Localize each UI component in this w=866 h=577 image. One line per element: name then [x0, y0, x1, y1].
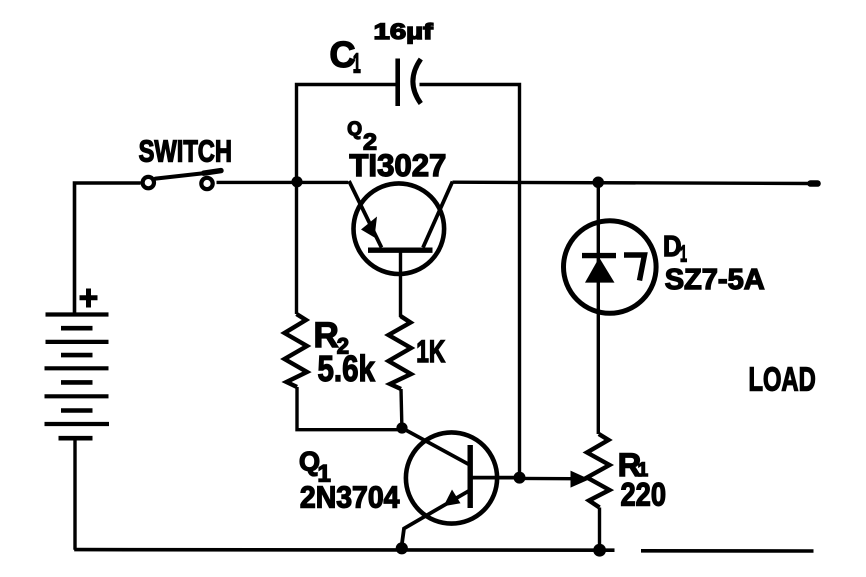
transistor Q1: [402, 428, 520, 547]
R1 wiper arrow: [571, 471, 590, 488]
wire C1 right side down to Q1 collector node: [420, 85, 520, 478]
wire R2 bottom to node C: [297, 387, 402, 430]
svg-text:Q: Q: [347, 119, 362, 140]
node C junction (Q1 base): [396, 422, 407, 433]
top rail right end tip: [811, 180, 818, 187]
node F junction (R1 bottom / bottom rail): [593, 544, 606, 557]
capacitor C1: [398, 59, 421, 107]
svg-text:5.6k: 5.6k: [318, 348, 376, 389]
svg-text:LOAD: LOAD: [749, 361, 816, 398]
Q1 label: [299, 447, 331, 488]
transistor Q2: [349, 181, 453, 317]
wire battery negative lead: [73, 438, 76, 550]
svg-text:1K: 1K: [416, 333, 445, 369]
resistor 1K: [389, 316, 412, 389]
C1 label: [330, 34, 361, 78]
svg-text:1: 1: [353, 47, 361, 78]
svg-text:TI3027: TI3027: [349, 148, 446, 183]
node E junction (Q1 emitter / bottom rail): [396, 542, 408, 554]
D1 label: [663, 231, 687, 266]
wire bottom rail: [74, 548, 614, 552]
svg-text:D: D: [663, 231, 682, 263]
wire node A up to C1: [297, 85, 397, 183]
svg-text:C: C: [330, 34, 356, 75]
node B junction (D1 top): [592, 177, 604, 189]
wire 1K bottom to node C: [399, 389, 403, 428]
wire top rail right section: [453, 182, 813, 183]
svg-text:SZ7-5A: SZ7-5A: [665, 264, 765, 296]
diode D1: [564, 221, 657, 314]
switch S1: [143, 171, 221, 190]
resistor R2: [285, 184, 308, 387]
R1 label: [618, 447, 649, 483]
svg-text:16µf: 16µf: [374, 19, 434, 44]
wire R1 bottom lead: [598, 508, 601, 551]
svg-text:220: 220: [621, 477, 667, 513]
resistor R1: [587, 434, 610, 508]
Q2 label: [347, 119, 377, 154]
wire switch to node A: [217, 181, 349, 184]
svg-text:1: 1: [680, 240, 687, 266]
node D junction (Q1 collector / C1 / R1 wiper): [514, 472, 526, 484]
wire top rail node B down through D1 to R1: [597, 182, 600, 434]
battery + label: [80, 289, 98, 308]
svg-text:2N3704: 2N3704: [300, 480, 400, 515]
R2 label: [314, 316, 350, 359]
svg-text:SWITCH: SWITCH: [139, 135, 232, 169]
wire bottom rail right: [641, 549, 814, 553]
wire node D to R1 wiper arrow: [520, 477, 572, 481]
battery B1: [45, 315, 110, 439]
node A junction: [291, 176, 302, 187]
wire battery positive to switch: [75, 183, 141, 314]
